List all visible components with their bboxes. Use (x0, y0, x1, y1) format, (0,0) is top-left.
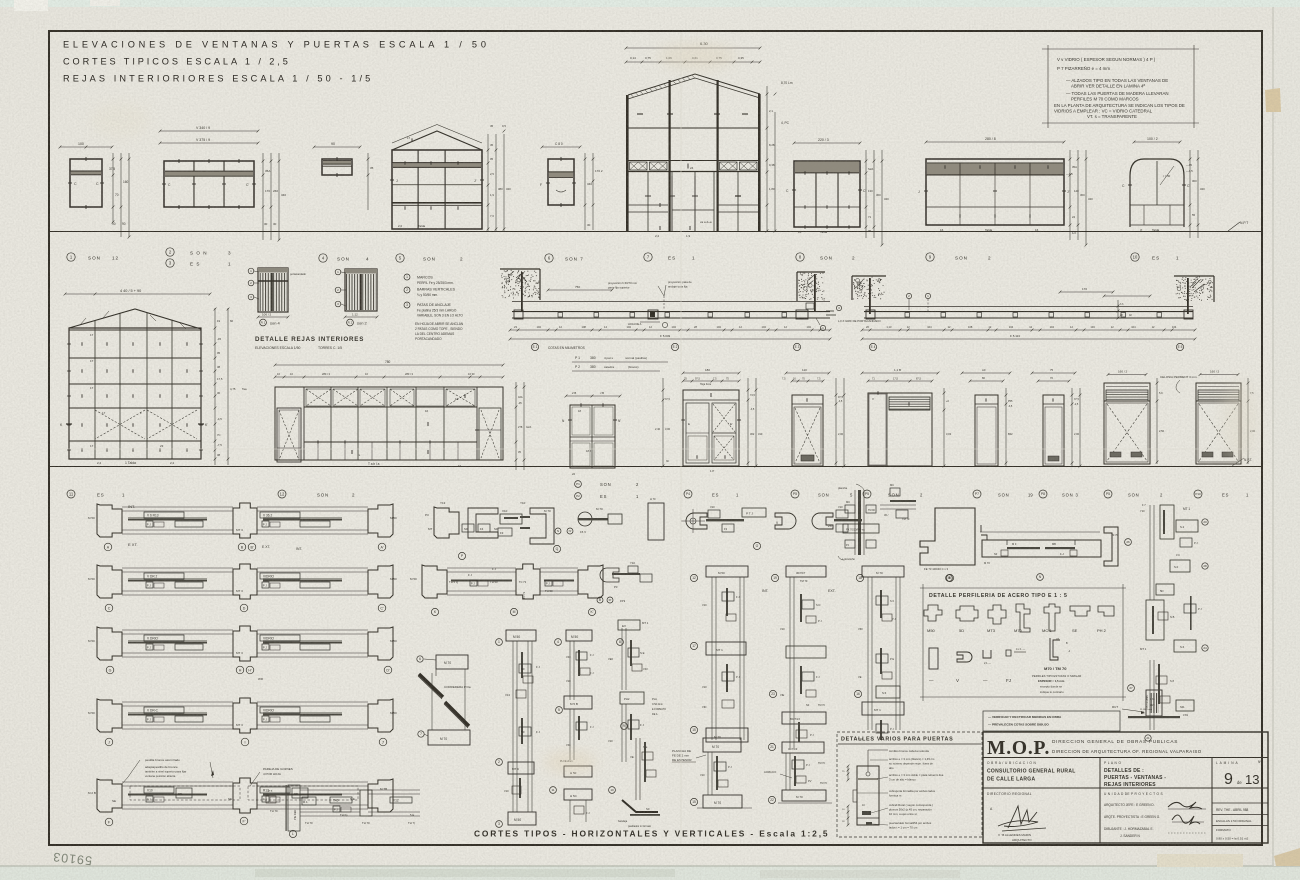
callout circle 4 SON 4 (319, 254, 327, 262)
E circle labels (531, 343, 538, 350)
P6 small cluster (890, 500, 916, 502)
profile row jamb left (97, 565, 122, 598)
callout circle P10 ES 1 (1194, 490, 1202, 498)
storefront bottom ticks (317, 440, 319, 443)
big central section with gable roof (628, 74, 760, 95)
window elevation W1 (70, 159, 102, 207)
strip 10 labels (617, 639, 624, 646)
callout circle 1 SON 12 (67, 253, 75, 261)
profile row jamb left (97, 699, 122, 732)
section lower panels and doors (647, 172, 649, 231)
callout circle 10 ES 1 (1131, 253, 1139, 261)
reja detail R1 (258, 268, 288, 312)
rail E1-E3 (512, 301, 830, 303)
callout circle 11 ES 1 (67, 490, 75, 498)
profile row mullion (233, 564, 257, 599)
D6 dims (1104, 295, 1150, 297)
handwritten 59103 bottom-left (52, 850, 93, 868)
concrete block E4 left (851, 276, 853, 300)
detalles varios para puertas box (837, 732, 982, 837)
signature squiggle left (1008, 806, 1037, 828)
callout circle 2 SON 3 (166, 248, 174, 256)
W9 dims (1134, 141, 1180, 143)
profile row jamb right (368, 565, 393, 598)
band separator line 1 (49, 231, 1262, 233)
callout circle 5 SON 2 (396, 254, 404, 262)
profile row lines (122, 701, 233, 703)
right cluster lower (1149, 660, 1151, 730)
D2 dims (792, 380, 823, 382)
faint fold lines (680, 32, 682, 844)
R1 leader circles (248, 268, 254, 274)
title block MOP row (983, 757, 1268, 759)
callout circle P5 SON 5 (791, 490, 799, 498)
door D4 narrow (975, 395, 998, 466)
horizontal section row F-F' with dashed parts (97, 779, 122, 812)
callout circle P7 SON 19 (973, 490, 981, 498)
D1 dims above (683, 372, 739, 374)
vidrio boxes (144, 573, 184, 579)
door D7 garage (1196, 383, 1241, 464)
P1 dims (566, 395, 620, 397)
row1 right cluster P-Q (434, 507, 459, 538)
E1 dim row (510, 329, 830, 331)
notes box top right (1042, 48, 1199, 50)
D7 dims (1200, 374, 1238, 376)
vidrio boxes (144, 635, 184, 641)
detalles varios door section (857, 766, 879, 825)
callout circle P6 SON 2 (863, 490, 871, 498)
window elevation W5 small (548, 159, 574, 205)
detalles varios leader lines (870, 759, 888, 761)
W4 peak tick (411, 138, 413, 141)
strip 12 (690, 574, 697, 581)
P1 P2 callout circles (575, 481, 582, 488)
big rectangle detail M (920, 508, 975, 565)
strip 18-16 (856, 574, 863, 581)
beige patch bottom right corner (1274, 848, 1300, 866)
profile row mullion (233, 503, 257, 538)
callout circle 12 SON 2 (278, 490, 286, 498)
vidrio boxes (144, 512, 184, 518)
scan edge right shadow (1272, 7, 1274, 866)
callout circle P4 ES 1 (684, 490, 692, 498)
vidrio boxes (144, 707, 184, 713)
storefront top dim (275, 364, 503, 366)
section segment dims (626, 61, 760, 63)
roof hatch (631, 95, 634, 98)
W2 dimensions above (160, 130, 258, 132)
profile row mullion (233, 698, 257, 733)
rail anchor plates 1 (558, 313, 563, 318)
rail E2 door leaf mark (648, 310, 658, 319)
profile row jamb right (368, 699, 393, 732)
E4 E5 circle labels (869, 343, 876, 350)
cluster L bottom middle-left (286, 785, 287, 831)
profile row jamb right (368, 504, 393, 537)
profile row jamb left (97, 627, 122, 660)
W7 dims (794, 142, 860, 144)
storefront elevation strip (275, 387, 503, 460)
storefront left door (277, 408, 301, 462)
right cluster NB (1146, 600, 1164, 640)
E5 dim 170 (1060, 291, 1113, 293)
section top dimension 6.30 (626, 47, 760, 49)
M circle above perfileria (946, 575, 953, 582)
row circles (105, 604, 113, 612)
diagonal corredera detail (436, 655, 468, 669)
perfileria glyphs row2 (929, 648, 938, 669)
scan edge top strip (0, 0, 1300, 7)
verificar box (983, 711, 1120, 731)
reja detail R2 (345, 269, 377, 311)
W2 dimensions right (262, 153, 264, 240)
band separator line 2 (49, 466, 1262, 468)
revision cells right (1212, 802, 1268, 804)
D4 dims (970, 380, 1003, 382)
E1 total dim (510, 338, 830, 340)
door D2 (792, 395, 823, 466)
D1 right dims (747, 378, 749, 466)
title block outer (983, 732, 1268, 843)
window P1 2x2 (570, 405, 615, 468)
perfileria profile glyphs row1 (924, 605, 942, 621)
cluster 15 bottom (703, 738, 741, 752)
window elevation W4 gable (392, 131, 482, 150)
callout circle 3 ES 1 (166, 259, 174, 267)
concrete block E3 (796, 272, 798, 301)
profile row mullion (233, 626, 257, 661)
window elevation W3 small (322, 159, 352, 175)
callout circle 6 SON 7 (545, 254, 553, 262)
door D5 narrow with sill (1043, 395, 1064, 466)
callout circle P8 SON 3 (1039, 490, 1047, 498)
large gable elevation (69, 309, 201, 329)
rail anchor plates 2 (905, 313, 910, 318)
storefront transom X panels (303, 387, 305, 460)
beige patch right edge (1265, 88, 1281, 112)
E4 dim row (862, 329, 1195, 331)
profile row jamb right (368, 627, 393, 660)
R2 label (345, 316, 377, 318)
profile row lines (122, 506, 233, 508)
door D6 garage with louver top (1104, 383, 1150, 464)
section posts (626, 95, 629, 231)
large gable elevation dimension (65, 293, 210, 295)
gable roof hatch ticks (80, 318, 86, 325)
callout circle 7 ES 1 (644, 253, 652, 261)
row2 right cluster K-M-K' (422, 565, 447, 598)
D3 dims (868, 380, 932, 382)
window elevation W2 (164, 161, 254, 207)
window elevation W7 (794, 161, 860, 227)
scan edge bottom strip (0, 866, 1300, 880)
R1 label (258, 316, 288, 318)
W1 dimension right (112, 153, 114, 222)
E1 dim 750 (548, 289, 612, 291)
right cluster middle filler (1156, 584, 1174, 595)
W8 dims (926, 141, 1064, 143)
profile row jamb left (97, 504, 122, 537)
W3 dimension (314, 146, 360, 148)
door D1 double with transom (683, 390, 739, 466)
W1 dimension above (60, 146, 112, 148)
E4 total dim (862, 338, 1195, 340)
bottom middle cluster VE strip (635, 738, 637, 800)
storefront right dims (515, 382, 517, 470)
gable right dim columns (214, 308, 216, 465)
row circles (104, 543, 112, 551)
P7 horizontal profile row (980, 531, 1100, 533)
concrete block E1 left (500, 268, 540, 270)
detalles varios dims (847, 766, 849, 780)
storefront right door (479, 408, 501, 460)
profile row lines (122, 629, 233, 631)
profile row lines (122, 567, 233, 569)
rail E4-E5 (864, 306, 1193, 308)
section tie beam (628, 127, 760, 129)
row F leader arrow (211, 770, 214, 776)
door D3 with louver (868, 393, 932, 466)
gable dashed X braces (95, 410, 145, 439)
center vertical strip 8-9-10 (621, 628, 623, 690)
row circles (105, 738, 113, 746)
row2 far right cluster R R' (600, 568, 619, 582)
W5 dims (542, 146, 580, 148)
marcos notes with circled numbers (404, 274, 410, 280)
diagonal slats (419, 674, 443, 697)
row circles (106, 666, 114, 674)
D5 dims (1038, 380, 1069, 382)
window elevation W9 arched (1130, 159, 1184, 227)
left dims of D1 (662, 378, 664, 466)
strip 19 (771, 574, 778, 581)
reja post E1 (521, 272, 523, 312)
W4 dims right (487, 134, 489, 232)
hinge pin row1 (578, 512, 592, 526)
title block row2 dividers (983, 787, 1268, 789)
E3 step detail (806, 303, 814, 309)
gable tick marks (81, 342, 83, 346)
paper stains (657, 42, 737, 70)
concrete block E5 right (1213, 276, 1215, 302)
cluster 21-22 bottom (768, 743, 775, 750)
P4 pill hinge profiles (648, 503, 664, 540)
callout circle 9 SON 2 (926, 253, 934, 261)
perfileria box border (920, 587, 1126, 589)
center vertical strip 4-5-11 (566, 630, 592, 641)
callout circle 8 SON 2 (796, 253, 804, 261)
callout circle P9 SON 2 (1104, 490, 1112, 498)
detail above title block - post base (1146, 690, 1162, 716)
center vertical strip 1-2-3 (506, 630, 536, 641)
transom band with X panels (628, 160, 760, 162)
storefront mullions (330, 387, 332, 460)
E4 callout circles (906, 293, 911, 298)
section right dims (766, 86, 768, 231)
section upper ticks (637, 113, 643, 115)
window elevation W8 wide (926, 159, 1064, 225)
